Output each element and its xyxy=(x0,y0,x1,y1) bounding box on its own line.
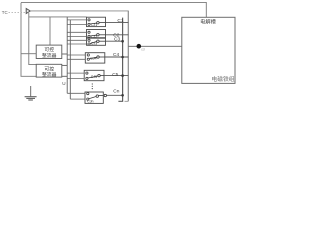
svg-text:CJ4: CJ4 xyxy=(90,57,96,61)
svg-text:cd: cd xyxy=(141,48,145,52)
svg-text:可控: 可控 xyxy=(44,46,54,53)
svg-text:C1: C1 xyxy=(117,18,123,24)
svg-text:电磁铁组: 电磁铁组 xyxy=(211,75,234,83)
svg-text:C4: C4 xyxy=(113,52,119,58)
svg-text:CJ1: CJ1 xyxy=(91,23,97,27)
svg-text:可控: 可控 xyxy=(44,65,54,72)
svg-text:整流器: 整流器 xyxy=(42,52,57,59)
svg-text:整流器: 整流器 xyxy=(42,71,57,78)
svg-text:CJn: CJn xyxy=(87,99,93,103)
svg-text:C5: C5 xyxy=(112,72,118,78)
svg-text:电解槽: 电解槽 xyxy=(200,18,216,26)
svg-text:CJ3: CJ3 xyxy=(91,42,97,46)
svg-text:Cn: Cn xyxy=(113,88,119,94)
svg-text:CJ2: CJ2 xyxy=(91,35,97,39)
svg-text:U: U xyxy=(62,81,65,86)
svg-text:C3: C3 xyxy=(114,36,120,42)
svg-text:CJ5: CJ5 xyxy=(91,75,97,79)
svg-text:TC: TC xyxy=(2,10,8,15)
